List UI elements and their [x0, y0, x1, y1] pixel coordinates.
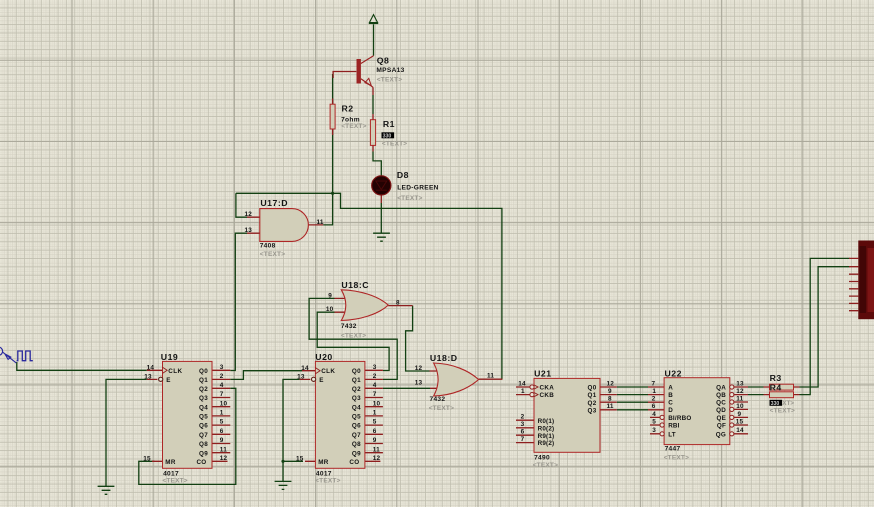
- svg-text:7: 7: [220, 391, 224, 398]
- svg-text:C: C: [668, 400, 673, 407]
- svg-text:13: 13: [245, 227, 253, 234]
- svg-text:12: 12: [245, 211, 253, 218]
- svg-text:8: 8: [608, 396, 612, 403]
- svg-text:QA: QA: [716, 385, 726, 392]
- svg-text:5: 5: [220, 419, 224, 426]
- svg-text:5: 5: [652, 418, 656, 425]
- svg-text:Q7: Q7: [352, 432, 361, 439]
- svg-text:1: 1: [652, 388, 656, 395]
- svg-text:Q8: Q8: [377, 56, 390, 66]
- svg-text:Q0: Q0: [199, 368, 208, 375]
- svg-text:4: 4: [220, 382, 224, 389]
- svg-text:Q2: Q2: [199, 386, 208, 393]
- svg-text:Q3: Q3: [588, 407, 597, 414]
- svg-text:QD: QD: [716, 407, 726, 414]
- svg-text:QC: QC: [716, 400, 726, 407]
- svg-text:Q3: Q3: [199, 395, 208, 402]
- svg-text:CLK: CLK: [168, 368, 182, 375]
- svg-text:4: 4: [373, 382, 377, 389]
- svg-text:R9(2): R9(2): [538, 440, 555, 447]
- svg-text:2: 2: [521, 414, 525, 421]
- svg-text:Q0: Q0: [352, 368, 361, 375]
- svg-text:11: 11: [317, 219, 324, 226]
- svg-text:MR: MR: [165, 459, 176, 466]
- svg-text:7: 7: [373, 391, 377, 398]
- svg-text:Q5: Q5: [352, 414, 361, 421]
- svg-text:12: 12: [373, 455, 381, 462]
- svg-text:R3: R3: [770, 373, 782, 383]
- svg-text:15: 15: [296, 455, 304, 462]
- svg-text:U19: U19: [161, 352, 178, 362]
- svg-text:2: 2: [652, 396, 656, 403]
- svg-text:R1: R1: [383, 119, 395, 129]
- svg-text:7: 7: [521, 436, 525, 443]
- svg-text:3: 3: [652, 427, 656, 434]
- svg-text:330: 330: [771, 401, 780, 407]
- svg-text:6: 6: [652, 403, 656, 410]
- svg-text:1: 1: [220, 410, 224, 417]
- svg-text:U20: U20: [315, 352, 332, 362]
- svg-text:BI/RBO: BI/RBO: [668, 415, 691, 422]
- svg-text:14: 14: [736, 427, 744, 434]
- svg-text:10: 10: [736, 403, 744, 410]
- svg-text:1: 1: [373, 410, 377, 417]
- svg-text:LED-GREEN: LED-GREEN: [397, 184, 439, 191]
- svg-text:XT>: XT>: [782, 400, 794, 407]
- svg-text:2: 2: [220, 373, 224, 380]
- svg-text:3: 3: [220, 364, 224, 371]
- svg-text:7408: 7408: [260, 242, 276, 249]
- svg-text:QE: QE: [717, 415, 727, 422]
- svg-text:E: E: [166, 377, 170, 384]
- svg-text:13: 13: [415, 379, 423, 386]
- svg-text:5: 5: [373, 419, 377, 426]
- svg-text:Q2: Q2: [588, 400, 597, 407]
- svg-text:U18:D: U18:D: [430, 353, 458, 363]
- svg-text:14: 14: [147, 364, 155, 371]
- svg-text:14: 14: [518, 380, 526, 387]
- svg-text:Q4: Q4: [199, 404, 208, 411]
- svg-text:13: 13: [144, 374, 152, 381]
- svg-text:7: 7: [652, 380, 656, 387]
- svg-text:3: 3: [373, 364, 377, 371]
- svg-text:<TEXT>: <TEXT>: [315, 477, 340, 484]
- svg-text:Q5: Q5: [199, 414, 208, 421]
- svg-text:<TEXT>: <TEXT>: [377, 77, 402, 84]
- svg-text:15: 15: [736, 418, 744, 425]
- svg-text:9: 9: [608, 388, 612, 395]
- svg-text:10: 10: [326, 306, 334, 313]
- svg-text:7490: 7490: [534, 455, 550, 462]
- svg-text:15: 15: [143, 455, 151, 462]
- svg-text:13: 13: [736, 380, 744, 387]
- svg-text:D8: D8: [397, 170, 409, 180]
- svg-text:MPSA13: MPSA13: [376, 67, 404, 74]
- svg-text:<TEXT>: <TEXT>: [664, 454, 689, 461]
- svg-text:Q7: Q7: [199, 432, 208, 439]
- svg-text:12: 12: [607, 380, 615, 387]
- svg-text:10: 10: [373, 400, 381, 407]
- svg-text:11: 11: [607, 403, 614, 410]
- svg-text:9: 9: [220, 437, 224, 444]
- svg-text:R0(2): R0(2): [538, 425, 555, 432]
- svg-text:10: 10: [220, 400, 228, 407]
- svg-text:7432: 7432: [341, 323, 357, 330]
- svg-text:6: 6: [521, 429, 525, 436]
- svg-text:8: 8: [396, 300, 400, 307]
- svg-text:R0(1): R0(1): [538, 418, 555, 425]
- svg-text:QG: QG: [716, 431, 726, 438]
- svg-text:9: 9: [738, 411, 742, 418]
- svg-text:MR: MR: [318, 459, 329, 466]
- svg-text:U18:C: U18:C: [341, 280, 369, 290]
- svg-text:1: 1: [521, 388, 525, 395]
- svg-text:12: 12: [736, 388, 744, 395]
- svg-text:7447: 7447: [665, 445, 681, 452]
- svg-text:Q6: Q6: [199, 423, 208, 430]
- svg-text:Q9: Q9: [199, 450, 208, 457]
- svg-text:11: 11: [487, 372, 494, 379]
- svg-text:6: 6: [220, 428, 224, 435]
- svg-text:330: 330: [383, 133, 392, 139]
- svg-text:11: 11: [736, 395, 743, 402]
- svg-text:Q6: Q6: [352, 423, 361, 430]
- svg-text:R2: R2: [342, 103, 354, 113]
- svg-text:<TEXT>: <TEXT>: [397, 195, 422, 202]
- svg-text:4: 4: [652, 411, 656, 418]
- svg-text:Q8: Q8: [199, 441, 208, 448]
- svg-text:QF: QF: [717, 423, 726, 430]
- svg-text:Q4: Q4: [352, 404, 361, 411]
- svg-text:<TEXT>: <TEXT>: [429, 405, 454, 412]
- svg-text:U22: U22: [665, 369, 682, 379]
- svg-text:E: E: [319, 377, 323, 384]
- svg-text:6: 6: [373, 428, 377, 435]
- svg-text:14: 14: [301, 365, 309, 372]
- svg-text:U21: U21: [534, 369, 551, 379]
- svg-text:Q3: Q3: [352, 395, 361, 402]
- svg-text:Q2: Q2: [352, 386, 361, 393]
- svg-text:Q1: Q1: [352, 377, 361, 384]
- svg-text:9: 9: [373, 437, 377, 444]
- svg-text:<TEXT>: <TEXT>: [770, 407, 795, 414]
- svg-text:Q1: Q1: [588, 392, 597, 399]
- svg-text:D: D: [668, 407, 673, 414]
- svg-text:3: 3: [521, 421, 525, 428]
- svg-text:12: 12: [415, 365, 423, 372]
- svg-text:CO: CO: [196, 459, 206, 466]
- svg-text:Q0: Q0: [588, 385, 597, 392]
- svg-text:CKB: CKB: [540, 392, 555, 399]
- svg-text:<TEXT>: <TEXT>: [533, 462, 558, 469]
- svg-text:U17:D: U17:D: [260, 198, 288, 208]
- svg-text:LT: LT: [668, 431, 676, 438]
- svg-text:CLK: CLK: [321, 368, 335, 375]
- svg-text:9: 9: [328, 292, 332, 299]
- svg-text:12: 12: [220, 455, 228, 462]
- svg-text:A: A: [668, 385, 673, 392]
- svg-text:R9(1): R9(1): [538, 433, 555, 440]
- svg-text:<TEXT>: <TEXT>: [341, 123, 366, 130]
- svg-text:<TEXT>: <TEXT>: [162, 477, 187, 484]
- svg-text:R4: R4: [770, 382, 782, 392]
- svg-text:CO: CO: [349, 459, 359, 466]
- svg-text:RBI: RBI: [668, 423, 679, 430]
- svg-text:13: 13: [297, 374, 305, 381]
- svg-text:B: B: [668, 392, 673, 399]
- svg-text:<TEXT>: <TEXT>: [341, 333, 366, 340]
- svg-text:7432: 7432: [430, 396, 446, 403]
- svg-text:<TEXT>: <TEXT>: [382, 141, 407, 148]
- svg-text:<TEXT>: <TEXT>: [260, 251, 285, 258]
- svg-text:Q9: Q9: [352, 450, 361, 457]
- svg-text:QB: QB: [716, 392, 726, 399]
- svg-text:Q1: Q1: [199, 377, 208, 384]
- svg-text:Q8: Q8: [352, 441, 361, 448]
- svg-text:11: 11: [220, 446, 227, 453]
- svg-text:2: 2: [373, 373, 377, 380]
- svg-text:11: 11: [373, 446, 380, 453]
- svg-text:CKA: CKA: [540, 385, 555, 392]
